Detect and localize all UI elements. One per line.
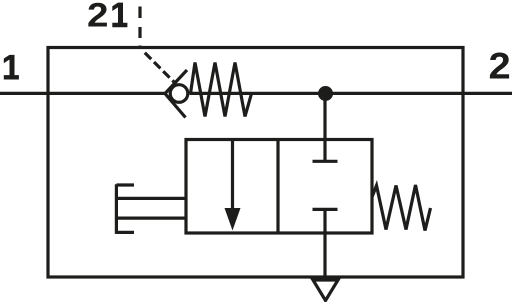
exhaust triangle bbox=[313, 280, 338, 301]
wire: pilot line lower bbox=[116, 217, 186, 220]
valve U1 top blocked port T bbox=[313, 141, 338, 161]
leader dashed line (diagonal) to check valve bbox=[145, 53, 176, 84]
valve U1 flow arrow stem bbox=[231, 141, 234, 212]
label port 1 bbox=[4, 55, 19, 80]
svg-text:2: 2 bbox=[489, 46, 511, 87]
check valve V1 seat bbox=[165, 70, 187, 118]
check valve V1 ball bbox=[170, 85, 188, 103]
wire: pilot line upper bbox=[116, 197, 186, 200]
enclosure box bbox=[48, 48, 463, 278]
node A junction dot bbox=[318, 86, 333, 101]
leader dashed line (vertical) for label 21 bbox=[138, 7, 141, 50]
pilot actuator bracket bbox=[116, 184, 134, 234]
valve U1 flow arrow head bbox=[225, 208, 241, 231]
wire: drop from node to valve bbox=[323, 93, 326, 141]
wire: main line 1 to seat bbox=[0, 92, 166, 95]
valve U1 cell divider bbox=[276, 140, 279, 234]
label 21 digit 1 bbox=[112, 3, 127, 28]
spring S2 (valve return) bbox=[372, 185, 431, 231]
valve U1 bottom blocked port T bbox=[313, 209, 338, 277]
spring S1 (check valve) bbox=[191, 63, 252, 117]
svg-text:2: 2 bbox=[87, 0, 108, 34]
wire: main line circle to 2 bbox=[190, 92, 512, 95]
valve U1 body bbox=[186, 140, 372, 234]
